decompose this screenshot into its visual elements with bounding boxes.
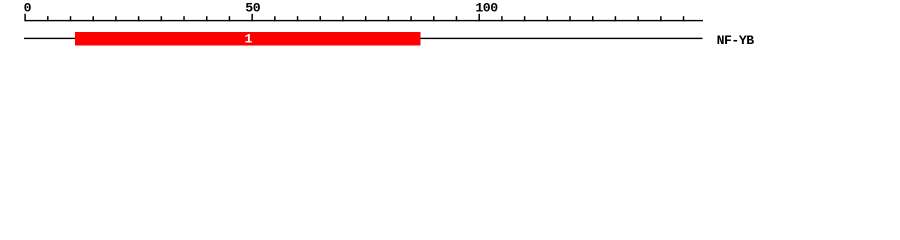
svg-text:1: 1 — [244, 32, 252, 47]
svg-text:50: 50 — [245, 1, 260, 16]
svg-text:100: 100 — [475, 1, 498, 16]
svg-text:NF-YB: NF-YB — [717, 33, 755, 48]
svg-text:0: 0 — [24, 1, 32, 16]
